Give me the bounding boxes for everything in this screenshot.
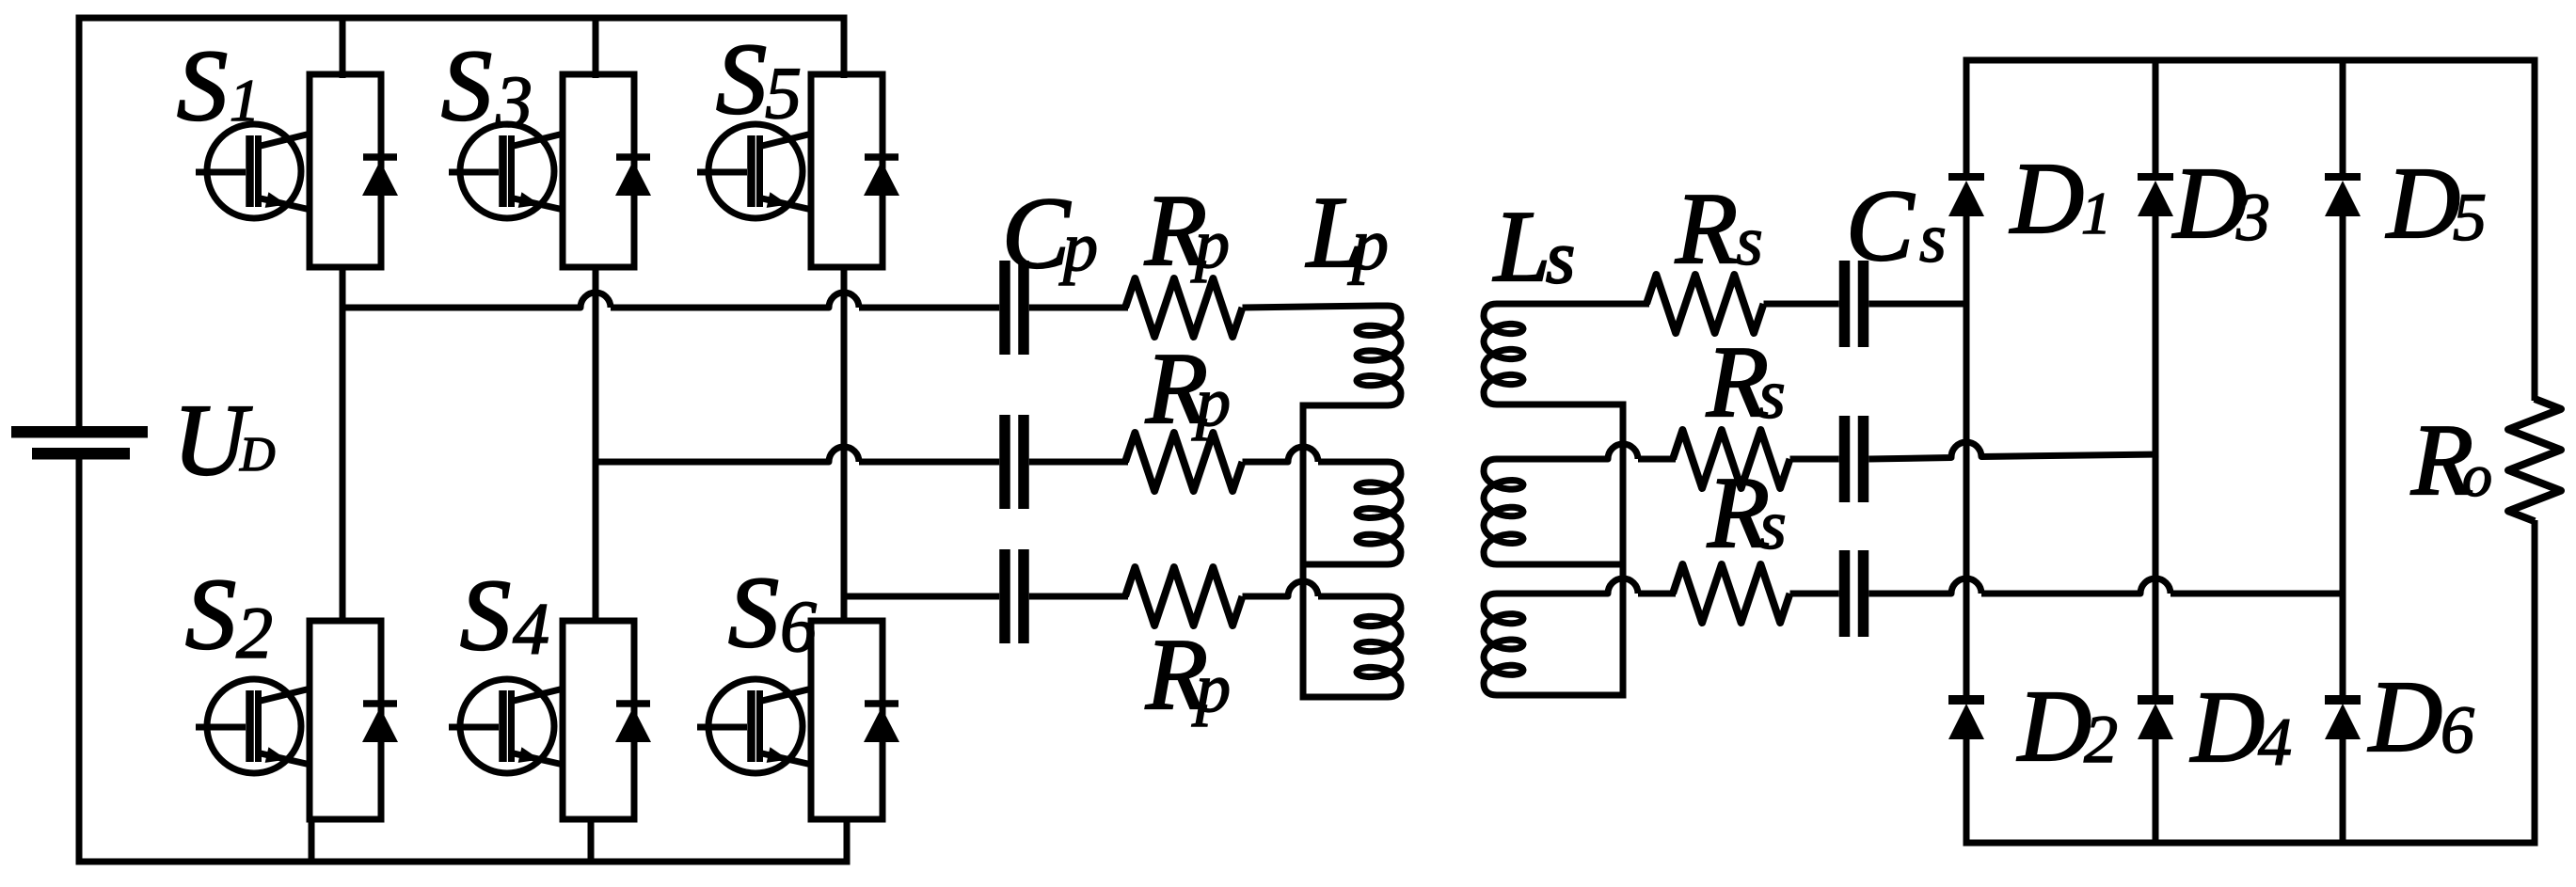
svg-text:R: R — [1675, 173, 1738, 285]
diode D6 — [2325, 700, 2361, 739]
transistor S6 — [697, 621, 899, 862]
wire load leg right — [2532, 60, 2538, 843]
wire left rail lower — [76, 459, 83, 865]
label D2 — [2016, 671, 2118, 783]
wire D1 leg — [1964, 60, 1970, 843]
svg-text:o: o — [2462, 442, 2492, 509]
svg-text:s: s — [1736, 203, 1763, 280]
label S1 — [177, 30, 260, 142]
svg-text:S: S — [728, 557, 779, 669]
svg-text:D: D — [2367, 661, 2442, 773]
label Rs (row C) — [1707, 457, 1787, 569]
battery UD (DC source) — [11, 426, 148, 460]
wire row C Rp to Lp — [1243, 581, 1378, 596]
diode D1 — [1948, 177, 1984, 216]
resistor Rp (row A) — [1125, 278, 1243, 337]
svg-text:p: p — [1191, 364, 1231, 441]
svg-text:2: 2 — [2084, 702, 2118, 777]
wire leg A mid — [340, 264, 346, 624]
wire row B Ls to Rs — [1507, 444, 1676, 459]
inductor Ls (coil C) — [1484, 594, 1523, 695]
svg-text:D: D — [2171, 148, 2247, 260]
svg-text:D: D — [239, 428, 276, 482]
label Lp — [1305, 177, 1389, 289]
wire Lp coil A bottom — [1300, 403, 1378, 409]
wire rectifier top rail — [1964, 57, 2538, 64]
capacitor Cp (row C) — [999, 549, 1029, 643]
svg-text:6: 6 — [780, 585, 817, 667]
label Cp — [1002, 178, 1098, 290]
wire row A Rp to Lp — [1243, 306, 1378, 308]
wire left rail upper — [76, 15, 83, 427]
wire D5 leg — [2340, 60, 2346, 843]
svg-text:s: s — [1919, 200, 1947, 277]
wire row A cap to Rp — [1029, 305, 1128, 311]
diode D4 — [2138, 700, 2173, 739]
transistor S4 — [449, 621, 651, 862]
capacitor Cs (row B) — [1839, 416, 1869, 502]
svg-text:p: p — [1190, 206, 1230, 283]
wire Lp coil B bottom — [1300, 562, 1378, 568]
wire row A Cs to D1 leg — [1868, 301, 1969, 308]
svg-text:3: 3 — [2235, 180, 2270, 255]
wire row A Ls to Rs — [1507, 301, 1649, 308]
inductor Lp (coil A) — [1357, 306, 1401, 405]
wire primary neutral — [1300, 403, 1307, 701]
svg-text:2: 2 — [236, 592, 273, 673]
wire Lp coil C bottom — [1300, 694, 1378, 701]
wire row C Cs to D5 leg — [1868, 578, 2345, 594]
inductor Lp (coil B) — [1357, 462, 1401, 564]
wire top rail — [76, 15, 848, 22]
label S2 — [185, 559, 273, 673]
diode D3 — [2138, 177, 2173, 216]
svg-text:L: L — [1492, 191, 1550, 303]
wire secondary neutral — [1620, 402, 1627, 699]
wire row B cap to Rp — [1029, 459, 1128, 466]
svg-text:5: 5 — [2453, 180, 2487, 255]
wire row B Cs to D3 leg — [1868, 442, 2158, 459]
svg-text:S: S — [460, 560, 511, 672]
transistor S3 — [449, 18, 651, 267]
label Ro — [2410, 404, 2492, 516]
svg-text:S: S — [177, 30, 228, 142]
svg-text:p: p — [1191, 650, 1231, 727]
wire row A Rs to Cs — [1764, 301, 1839, 308]
inductor Ls (coil A) — [1484, 304, 1523, 404]
label Ls — [1492, 191, 1575, 303]
svg-text:D: D — [2189, 672, 2265, 784]
transistor S1 — [196, 18, 398, 267]
svg-text:s: s — [1758, 356, 1786, 434]
resistor Rp (row B) — [1125, 433, 1243, 491]
resistor Rs (row A) — [1646, 275, 1764, 333]
wire row B Rs to Cs — [1790, 456, 1839, 463]
svg-text:p: p — [1347, 203, 1389, 285]
label D4 — [2189, 672, 2292, 784]
svg-text:4: 4 — [2258, 705, 2292, 780]
label Rs (row A) — [1675, 173, 1763, 285]
capacitor Cs (row A) — [1839, 261, 1869, 347]
svg-text:4: 4 — [513, 588, 549, 670]
wire row B Rp to Lp — [1243, 447, 1378, 462]
capacitor Cp (row B) — [999, 415, 1029, 509]
label S4 — [460, 560, 549, 672]
label D1 — [2009, 143, 2111, 255]
svg-text:S: S — [185, 559, 236, 671]
svg-text:C: C — [1846, 170, 1916, 282]
resistor Rs (row B) — [1673, 430, 1790, 488]
wire Ls coil B bottom — [1507, 562, 1627, 568]
resistor Rs (row C) — [1673, 564, 1790, 623]
inductor Ls (coil B) — [1484, 459, 1523, 564]
label Rp (row C) — [1145, 619, 1231, 731]
wire row B (phase b output) — [598, 447, 999, 462]
svg-text:D: D — [2385, 148, 2460, 260]
label S6 — [728, 557, 817, 669]
svg-text:1: 1 — [230, 67, 260, 134]
svg-text:1: 1 — [2081, 180, 2111, 246]
label Rs (row B) — [1706, 326, 1786, 438]
label D5 — [2385, 148, 2487, 260]
label Cs — [1846, 170, 1947, 282]
label Rp (row A) — [1144, 175, 1230, 287]
wire row A (phase a output) — [345, 293, 999, 308]
capacitor Cp (row A) — [999, 261, 1029, 355]
label D6 — [2367, 661, 2474, 773]
svg-text:p: p — [1058, 209, 1098, 286]
svg-text:D: D — [2016, 671, 2091, 783]
wire row C Ls to Rs — [1507, 578, 1676, 594]
label S5 — [716, 24, 802, 135]
wire row C Rs to Cs — [1790, 591, 1839, 597]
wire Ls coil A bottom — [1507, 402, 1627, 408]
svg-text:S: S — [441, 30, 492, 142]
wire Ls coil C bottom — [1507, 692, 1627, 699]
wire rectifier bottom rail — [1964, 840, 2538, 847]
label Rp (row B) — [1145, 333, 1231, 445]
wire row C cap to Rp — [1029, 594, 1128, 600]
resistor Rp (row C) — [1125, 567, 1243, 626]
wire bottom rail — [76, 859, 851, 865]
wire leg C mid — [841, 264, 848, 624]
svg-text:s: s — [1759, 487, 1787, 564]
transistor S2 — [196, 621, 398, 862]
label D3 — [2171, 148, 2270, 260]
capacitor Cs (row C) — [1839, 550, 1869, 637]
svg-text:5: 5 — [765, 52, 802, 134]
svg-text:6: 6 — [2441, 692, 2474, 768]
svg-text:s: s — [1546, 216, 1575, 299]
inductor Lp (coil C) — [1357, 596, 1401, 697]
label U_D — [173, 385, 276, 497]
svg-text:3: 3 — [495, 60, 533, 142]
diode D5 — [2325, 177, 2361, 216]
label S3 — [441, 30, 533, 142]
svg-text:C: C — [1002, 178, 1072, 290]
wire row C (phase c output) — [847, 594, 999, 600]
wire D3 leg — [2153, 60, 2159, 843]
diode D2 — [1948, 700, 1984, 739]
svg-text:D: D — [2009, 143, 2084, 255]
resistor Ro — [2508, 399, 2561, 521]
transistor S5 — [697, 18, 899, 267]
wire leg B mid — [593, 264, 599, 624]
svg-text:S: S — [716, 24, 767, 135]
